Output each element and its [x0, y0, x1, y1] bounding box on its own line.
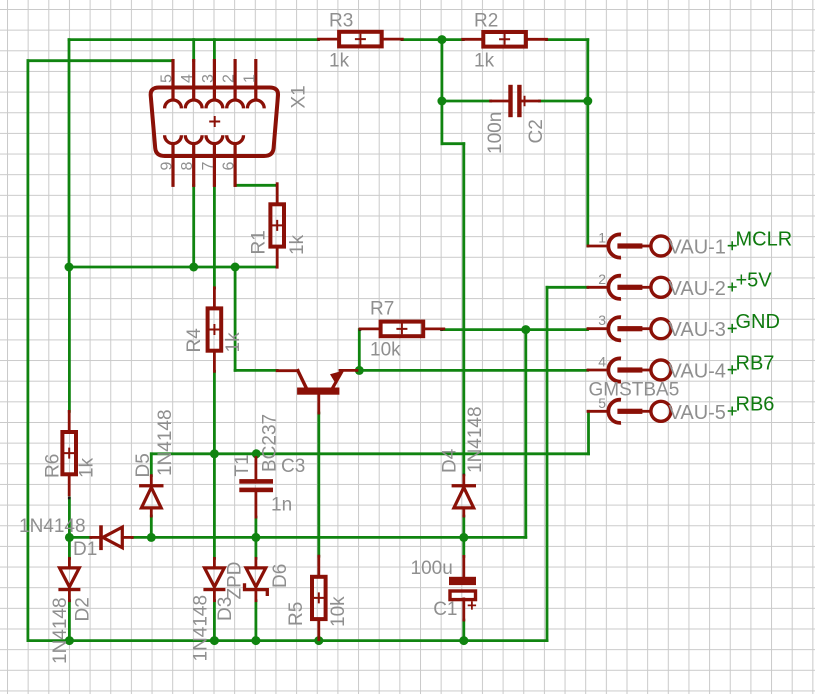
- net label anchor cross RB6: [728, 407, 737, 416]
- wire GND vertical: [524, 330, 527, 538]
- svg-text:1: 1: [598, 230, 606, 246]
- connector pin VAU-2 socket arc: [608, 276, 621, 299]
- X1 pin 4 socket arc: [185, 100, 202, 108]
- X1 pin 7 lead: [213, 144, 216, 186]
- svg-text:1k: 1k: [77, 457, 98, 478]
- svg-text:R6: R6: [43, 454, 64, 478]
- wire C1 bottom: [462, 620, 465, 641]
- transistor T1 emitter diagonal: [333, 372, 342, 388]
- svg-text:D1: D1: [73, 539, 97, 560]
- resistor R5 pins: [317, 556, 320, 577]
- diode D6 pins: [254, 559, 257, 568]
- X1 pin 3 socket arc: [206, 100, 223, 108]
- X1 pin 3 lead: [213, 61, 216, 100]
- connector pin VAU-1 pad circle: [651, 236, 671, 256]
- svg-text:2: 2: [598, 271, 606, 287]
- svg-text:3: 3: [598, 312, 606, 328]
- svg-text:8: 8: [179, 162, 196, 171]
- junction GND row: [521, 325, 530, 334]
- wire C3 bottom: [254, 517, 257, 537]
- capacitor C2 pins: [491, 100, 509, 103]
- svg-text:R5: R5: [286, 602, 307, 626]
- wire pin7 to R4: [213, 185, 216, 288]
- X1 pin 8 lead: [192, 144, 195, 186]
- pin end junction marks: [68, 38, 590, 621]
- diode D4 pins: [462, 476, 465, 484]
- junction emitter: [355, 366, 364, 375]
- wire collector link: [235, 369, 277, 372]
- wire R6 top: [68, 267, 71, 411]
- diode D3 cathode bar: [203, 588, 225, 591]
- svg-text:R3: R3: [329, 11, 353, 32]
- svg-text:RB6: RB6: [736, 394, 775, 416]
- connector pin VAU-2 pad circle: [651, 277, 671, 297]
- diode D4 cathode bar: [452, 484, 476, 487]
- wire D6 top: [254, 537, 257, 558]
- junction D2 bottom: [65, 636, 74, 645]
- wire D3 bottom: [213, 601, 216, 641]
- X1 pin 8 socket arc: [185, 135, 202, 143]
- wire R6 bottom: [68, 498, 71, 537]
- junction node A2: [231, 263, 240, 272]
- transistor T1 collector lead: [277, 369, 298, 372]
- resistor R2 body: [483, 32, 526, 47]
- net label anchor cross GND: [728, 324, 737, 333]
- svg-text:1N4148: 1N4148: [50, 597, 71, 664]
- resistor R3 pins: [319, 38, 340, 41]
- connector X1 body: [151, 88, 278, 157]
- svg-text:100n: 100n: [485, 112, 506, 154]
- junction GND-R6-D1: [65, 533, 74, 542]
- wire D5 top: [150, 454, 153, 476]
- X1 pin 5 socket arc: [165, 100, 182, 108]
- wire C1 top: [462, 537, 465, 556]
- wire GND row: [442, 328, 588, 331]
- svg-text:C1: C1: [433, 599, 457, 620]
- junction D1-D5: [147, 533, 156, 542]
- diode D1 pins: [91, 536, 99, 539]
- svg-text:4: 4: [179, 74, 196, 83]
- wire D3 top: [213, 454, 216, 559]
- capacitor C1 plus mark: [468, 601, 476, 609]
- svg-text:ZPD: ZPD: [225, 562, 246, 600]
- svg-text:6: 6: [221, 162, 238, 171]
- diode D2 triangle: [60, 568, 80, 587]
- resistor R3 body: [339, 32, 382, 47]
- diode D6 triangle: [246, 568, 266, 587]
- transistor T1 emitter arrow: [330, 371, 343, 384]
- connector pin VAU-5 link: [642, 410, 650, 413]
- wire jog horizontal: [442, 142, 464, 145]
- svg-text:2: 2: [221, 74, 238, 83]
- wire node to transistor vertical: [234, 267, 237, 370]
- wire C2 left: [442, 100, 491, 103]
- wire +5V vertical: [546, 287, 549, 640]
- connector pin VAU-2 link: [642, 286, 650, 289]
- svg-text:7: 7: [200, 162, 217, 171]
- diode D5 cathode bar: [139, 484, 163, 487]
- svg-text:9: 9: [159, 162, 176, 171]
- junction R3-R2: [437, 35, 446, 44]
- wire pin6 elbow: [235, 184, 277, 187]
- svg-text:R4: R4: [184, 328, 205, 353]
- X1 pin 7 socket arc: [206, 135, 223, 143]
- capacitor C3 plates: [239, 479, 273, 484]
- resistor R7 body: [381, 322, 424, 337]
- svg-text:VAU-1: VAU-1: [669, 237, 726, 259]
- wire R2 right: [547, 38, 588, 41]
- diode D5 triangle: [141, 487, 161, 508]
- wire D2 top: [68, 537, 71, 558]
- wire pin4 drop: [192, 40, 195, 61]
- connector pin VAU-1 bar: [617, 243, 642, 248]
- resistor R5 body: [312, 577, 326, 619]
- connector pin VAU-2 lead: [588, 286, 608, 289]
- svg-text:VAU-2: VAU-2: [669, 278, 726, 300]
- connector pin VAU-2 bar: [617, 285, 642, 290]
- junction pin8: [189, 263, 198, 272]
- wire base to R5: [317, 413, 320, 556]
- connector pin VAU-5 pad circle: [651, 401, 671, 421]
- X1 pin 6 lead: [234, 144, 237, 186]
- connector pin VAU-3 pad circle: [651, 319, 671, 339]
- connector pin VAU-4 link: [642, 369, 650, 372]
- svg-text:R2: R2: [474, 11, 498, 32]
- connector pin VAU-4 lead: [588, 369, 608, 372]
- connector pin VAU-5 bar: [617, 409, 642, 414]
- diode D3 triangle: [205, 568, 225, 587]
- net label anchor cross RB7: [728, 365, 737, 374]
- wire D6 bottom: [254, 601, 257, 641]
- svg-text:C3: C3: [281, 456, 305, 477]
- wire GND rail left: [69, 536, 90, 539]
- wire emitter to R7 vertical: [358, 330, 361, 371]
- resistor R6 pins: [68, 411, 71, 432]
- net label anchor cross MCLR: [728, 241, 737, 250]
- diode D3 pins: [213, 559, 216, 568]
- X1 pin 9 socket arc: [165, 135, 182, 143]
- wire C3 top: [254, 454, 257, 458]
- junction MCLR-C2: [583, 97, 592, 106]
- wire D4 bottom: [462, 516, 465, 537]
- svg-text:RB7: RB7: [736, 352, 775, 374]
- wire pin3 drop: [213, 40, 216, 61]
- capacitor C2 origin cross: [519, 96, 529, 106]
- resistor R6 body: [62, 432, 76, 474]
- connector pin VAU-4 socket arc: [608, 358, 621, 381]
- X1 pin 1 lead: [254, 61, 257, 100]
- X1 pin 9 lead: [171, 144, 174, 186]
- wire node row y267: [69, 266, 277, 269]
- capacitor C3 pins: [254, 458, 257, 480]
- junction C3 top: [252, 449, 261, 458]
- wire MCLR vertical: [586, 40, 589, 246]
- junction D6 bottom: [251, 636, 260, 645]
- svg-text:5: 5: [159, 74, 176, 83]
- junction C3-D6: [251, 533, 260, 542]
- wire D2 bottom: [68, 601, 71, 641]
- diode D2 pins: [68, 559, 71, 568]
- svg-text:1n: 1n: [271, 495, 292, 516]
- svg-text:GND: GND: [736, 311, 780, 333]
- X1 pin 2 socket arc: [227, 100, 244, 108]
- svg-text:4: 4: [598, 354, 606, 370]
- svg-text:1N4148: 1N4148: [19, 516, 86, 537]
- wire GND rail: [132, 536, 526, 539]
- svg-text:C2: C2: [526, 119, 547, 143]
- capacitor C1 bottom plate: [450, 591, 476, 600]
- X1 pin 4 lead: [192, 61, 195, 100]
- svg-text:100u: 100u: [411, 558, 453, 579]
- svg-text:1k: 1k: [287, 234, 308, 255]
- svg-text:1: 1: [241, 74, 258, 83]
- connector pin VAU-3 link: [642, 327, 650, 330]
- resistor R1 pins: [276, 184, 279, 205]
- wire RB7 horizontal: [357, 369, 588, 372]
- svg-text:1N4148: 1N4148: [155, 409, 176, 476]
- svg-text:VAU-3: VAU-3: [669, 319, 726, 341]
- wire D5 bottom: [150, 516, 153, 537]
- wire R3-R2 link: [402, 38, 463, 41]
- junction C1 bottom: [459, 636, 468, 645]
- wire net-TXD top horizontal: [69, 38, 319, 41]
- transistor T1 base lead: [317, 395, 320, 413]
- capacitor C2 plates: [508, 85, 512, 117]
- connector pin VAU-5 lead: [588, 410, 608, 413]
- wire R2R3-C2 vertical: [440, 40, 443, 144]
- svg-text:10k: 10k: [370, 340, 401, 361]
- svg-text:BC237: BC237: [260, 414, 281, 472]
- svg-text:T1: T1: [232, 454, 253, 476]
- connector pin VAU-3 lead: [588, 327, 608, 330]
- svg-text:+5V: +5V: [736, 270, 773, 292]
- connector pin VAU-1 lead: [588, 245, 608, 248]
- svg-text:D2: D2: [73, 597, 94, 621]
- wire RB6 vertical: [587, 411, 590, 454]
- connector X1 origin cross: [209, 116, 220, 127]
- svg-text:1k: 1k: [474, 51, 495, 72]
- svg-text:3: 3: [200, 74, 217, 83]
- capacitor C1 top plate: [449, 577, 476, 585]
- connector pin VAU-3 bar: [617, 326, 642, 331]
- connector pin VAU-1 socket arc: [608, 234, 621, 257]
- diode D6 cathode bar: [245, 583, 268, 596]
- junction R5 bottom: [314, 636, 323, 645]
- wire net-TXD left vertical: [68, 40, 71, 267]
- svg-text:D5: D5: [133, 453, 154, 477]
- junction D3 bottom: [210, 636, 219, 645]
- transistor T1 emitter lead: [340, 369, 357, 372]
- svg-text:1N4148: 1N4148: [465, 406, 486, 473]
- diode D1 triangle: [103, 527, 123, 548]
- X1 pin 5 lead: [171, 61, 174, 100]
- svg-text:MCLR: MCLR: [736, 228, 793, 250]
- svg-text:1N4148: 1N4148: [191, 595, 212, 662]
- resistor R1 body: [270, 204, 284, 246]
- wire pin5 horizontal: [28, 59, 173, 62]
- connector pin VAU-4 bar: [617, 367, 642, 372]
- svg-text:D4: D4: [440, 448, 461, 473]
- transistor T1 base bar: [297, 388, 339, 395]
- connector pin VAU-1 link: [642, 245, 650, 248]
- X1 pin 6 socket arc: [227, 135, 244, 143]
- junction R4-D3: [210, 449, 219, 458]
- svg-text:1k: 1k: [329, 51, 350, 72]
- diode D2 cathode bar: [58, 588, 80, 591]
- svg-text:X1: X1: [289, 85, 310, 108]
- junction node A1: [65, 263, 74, 272]
- resistor R4 pins: [213, 288, 216, 309]
- connector pin VAU-3 socket arc: [608, 317, 621, 340]
- X1 pin 1 socket arc: [247, 100, 264, 108]
- diode D1 cathode bar: [99, 525, 103, 550]
- wire +5V bottom rail: [28, 639, 547, 642]
- wire +5V row: [547, 286, 588, 289]
- diode D5 pins: [150, 476, 153, 484]
- svg-text:1k: 1k: [223, 332, 244, 353]
- svg-text:D6: D6: [270, 564, 291, 588]
- resistor R2 pins: [463, 38, 484, 41]
- wire RB6 horizontal: [151, 452, 588, 455]
- svg-text:VAU-5: VAU-5: [669, 402, 726, 424]
- connector pin VAU-4 pad circle: [651, 360, 671, 380]
- net label anchor cross +5V: [728, 283, 737, 292]
- svg-text:GMSTBA5: GMSTBA5: [589, 380, 680, 401]
- wire to D4 vertical: [462, 144, 465, 475]
- svg-text:R1: R1: [249, 230, 270, 254]
- junction D4-C1: [459, 533, 468, 542]
- wire R4 bottom: [213, 371, 216, 454]
- wire pin8 vertical: [192, 185, 195, 267]
- resistor R7 pins: [360, 327, 381, 330]
- svg-text:R7: R7: [370, 299, 394, 320]
- wire +5V left vertical: [26, 61, 29, 641]
- svg-text:10k: 10k: [328, 596, 349, 627]
- junction C2 left: [437, 97, 446, 106]
- X1 pin 2 lead: [234, 61, 237, 100]
- diode D4 triangle: [454, 487, 474, 508]
- connector pin VAU-5 socket arc: [608, 400, 621, 423]
- wire C2 right: [540, 100, 588, 103]
- capacitor C1 pins: [462, 556, 465, 576]
- resistor R4 body: [208, 308, 222, 350]
- transistor T1 collector diagonal: [298, 371, 307, 389]
